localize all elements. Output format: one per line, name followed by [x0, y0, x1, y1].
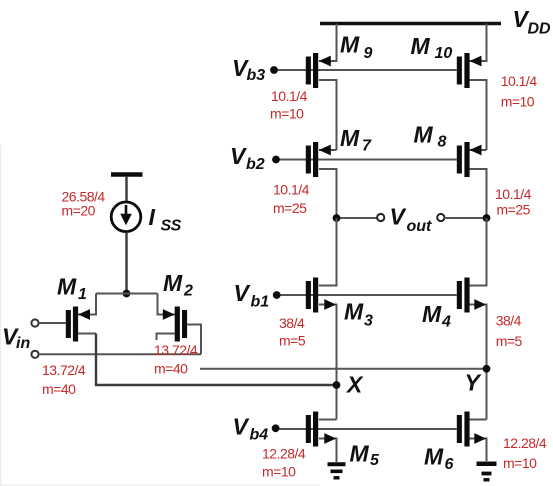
svg-text:m=5: m=5: [279, 333, 306, 349]
svg-text:M: M: [340, 125, 360, 151]
svg-text:m=5: m=5: [496, 333, 523, 349]
svg-text:b1: b1: [251, 294, 270, 311]
current source ISS supply bar: [111, 172, 143, 176]
svg-text:12.28/4: 12.28/4: [503, 435, 547, 451]
svg-text:V: V: [230, 143, 247, 169]
edge artifact left: [0, 145, 2, 486]
node Y: [483, 365, 491, 373]
transistor M3: [306, 278, 336, 313]
svg-text:M: M: [57, 274, 77, 300]
wire M10 drain down: [469, 80, 487, 150]
svg-text:Y: Y: [465, 370, 483, 396]
svg-text:10: 10: [435, 45, 453, 62]
wire Vb4 gate line: [276, 428, 457, 430]
svg-text:V: V: [233, 414, 250, 440]
svg-text:M: M: [414, 122, 434, 148]
wire M9 source to VDD: [319, 24, 337, 62]
svg-text:6: 6: [445, 456, 454, 473]
wire M4 source down to Y: [469, 305, 487, 420]
ground under M5: [328, 464, 346, 478]
node Vb3 dot: [270, 66, 278, 74]
svg-text:V: V: [234, 280, 251, 306]
transistor M10: [457, 53, 482, 88]
svg-text:1: 1: [78, 286, 87, 303]
wire Vin+ to M1 gate: [39, 322, 66, 324]
svg-text:in: in: [16, 335, 30, 352]
svg-text:4: 4: [441, 314, 451, 331]
node tail junction: [123, 290, 131, 298]
node Vin- terminal: [31, 351, 38, 358]
node Vout left terminal: [377, 214, 384, 221]
svg-text:M: M: [411, 33, 431, 59]
svg-text:m=10: m=10: [262, 464, 296, 480]
svg-text:m=10: m=10: [503, 455, 537, 471]
wire ISS to tail: [125, 232, 127, 293]
svg-text:V: V: [390, 204, 407, 230]
wire tail: [96, 293, 158, 295]
svg-text:M: M: [424, 444, 444, 470]
wire Vb2 gate line: [276, 159, 457, 161]
edge artifact bottom: [0, 484, 320, 486]
wire M1 drain down: [78, 333, 96, 335]
wire M7 drain to Vout: [319, 169, 337, 218]
wire M8 drain to Vout: [469, 169, 487, 218]
svg-text:38/4: 38/4: [496, 313, 522, 329]
transistor M4: [457, 278, 486, 313]
svg-text:m=10: m=10: [501, 94, 535, 110]
wire M7 source up: [319, 149, 337, 151]
svg-text:m=25: m=25: [273, 200, 307, 216]
svg-text:M: M: [422, 301, 442, 327]
svg-text:m=20: m=20: [62, 203, 96, 219]
svg-text:13.72/4: 13.72/4: [154, 342, 198, 358]
current source ISS: [111, 202, 141, 232]
svg-text:out: out: [407, 218, 433, 235]
node Vout right junction: [483, 214, 491, 222]
wire M5 drain up: [319, 419, 337, 421]
node Vb1 dot: [273, 291, 281, 299]
svg-text:m=10: m=10: [270, 106, 304, 122]
node Vout left junction: [333, 214, 341, 222]
wire M5 source down: [319, 439, 337, 463]
wire M2 drain to Y: [200, 368, 487, 370]
wire M2 source up: [158, 294, 175, 315]
wire Vout left: [337, 217, 378, 219]
node Vb2 dot: [272, 156, 280, 164]
node Vout right terminal: [437, 214, 444, 221]
wire M6 source down: [469, 439, 487, 462]
wire M2 gate right: [187, 325, 201, 355]
wire M1 drain to X: [96, 334, 337, 386]
svg-text:10.1/4: 10.1/4: [271, 88, 308, 104]
wire M10 source to VDD: [469, 24, 487, 62]
wire M8 source up: [469, 149, 487, 151]
svg-text:2: 2: [183, 283, 193, 300]
svg-text:12.28/4: 12.28/4: [262, 446, 306, 462]
svg-text:SS: SS: [161, 218, 182, 235]
svg-text:b2: b2: [246, 156, 265, 173]
svg-text:X: X: [345, 372, 364, 398]
svg-text:7: 7: [362, 138, 372, 155]
wire M3 drain up: [319, 218, 337, 286]
wire Vb1 gate line: [277, 294, 457, 296]
node Vb4 dot: [272, 424, 280, 432]
svg-text:8: 8: [438, 134, 447, 151]
svg-text:38/4: 38/4: [279, 315, 305, 331]
svg-text:m=25: m=25: [497, 202, 531, 218]
transistor M2: [163, 307, 187, 342]
transistor M6: [457, 412, 486, 447]
svg-text:10.1/4: 10.1/4: [501, 73, 538, 89]
svg-text:b4: b4: [250, 427, 269, 444]
svg-text:DD: DD: [528, 21, 552, 38]
transistor M7: [306, 142, 331, 177]
wire Vin- to M2 gate: [39, 353, 201, 355]
svg-text:b3: b3: [247, 67, 266, 84]
transistor M9: [306, 53, 331, 88]
node X: [333, 381, 341, 389]
svg-text:10.1/4: 10.1/4: [495, 186, 532, 202]
wire Vout right: [444, 217, 486, 219]
svg-text:M: M: [350, 441, 370, 467]
svg-text:9: 9: [364, 45, 373, 62]
transistor M5: [306, 412, 336, 447]
ground under M6: [477, 464, 497, 480]
svg-text:m=40: m=40: [154, 361, 188, 377]
wire M1 source up: [78, 294, 96, 315]
svg-text:I: I: [149, 204, 156, 230]
wire supply to ISS: [125, 176, 127, 202]
svg-text:M: M: [163, 270, 183, 296]
svg-text:m=40: m=40: [42, 381, 76, 397]
wire M4 drain up: [469, 218, 487, 286]
svg-text:3: 3: [364, 313, 373, 330]
node Vin+ terminal: [31, 319, 38, 326]
svg-text:M: M: [340, 32, 360, 58]
svg-text:M: M: [344, 299, 364, 325]
wire M3 source down to X: [319, 305, 337, 420]
transistor M8: [457, 142, 482, 177]
wire Vb3 gate line: [274, 69, 457, 71]
wire M6 drain up: [469, 419, 487, 421]
transistor M1: [66, 307, 90, 342]
wire M2 drain stub: [157, 334, 175, 341]
svg-text:13.72/4: 13.72/4: [42, 362, 86, 378]
wire VDD rail: [320, 22, 501, 25]
svg-text:5: 5: [370, 452, 380, 469]
svg-text:10.1/4: 10.1/4: [273, 182, 310, 198]
wire M9 drain down: [319, 80, 337, 150]
